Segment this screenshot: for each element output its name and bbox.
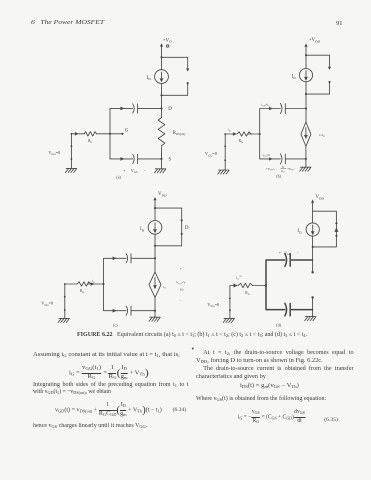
svg-text:RG: RG: [80, 289, 84, 294]
svg-text:(b): (b): [276, 173, 281, 178]
svg-text:+VD: +VD: [163, 38, 172, 43]
svg-text:iGD≈iG: iGD≈iG: [261, 103, 270, 108]
svg-text:G: G: [125, 129, 129, 134]
svg-text:id: id: [163, 285, 166, 290]
svg-text:VGS: VGS: [131, 168, 138, 174]
svg-text:+VTh−: +VTh−: [287, 167, 296, 172]
svg-text:RG: RG: [239, 139, 243, 144]
svg-text:ID: ID: [147, 76, 152, 81]
svg-text:RDS(on): RDS(on): [173, 131, 186, 136]
svg-text:i=iD: i=iD: [319, 133, 325, 138]
svg-text:VGG=0: VGG=0: [205, 151, 217, 157]
svg-text:RG: RG: [245, 291, 249, 296]
svg-text:+: +: [180, 267, 182, 271]
svg-text:iG: iG: [92, 278, 95, 283]
svg-text:ID: ID: [292, 75, 297, 80]
svg-text:VGG=0: VGG=0: [48, 150, 60, 156]
svg-text:VDD: VDD: [158, 192, 167, 197]
svg-text:(d): (d): [276, 323, 281, 328]
svg-text:+: +: [279, 251, 281, 255]
svg-text:+VDD: +VDD: [309, 38, 321, 43]
svg-text:RG: RG: [88, 139, 92, 144]
svg-text:VGG=0: VGG=0: [207, 302, 219, 308]
svg-text:−: −: [297, 251, 299, 255]
svg-text:(t): (t): [180, 287, 183, 291]
svg-text:gm: gm: [281, 169, 284, 174]
svg-text:ID: ID: [297, 229, 302, 234]
svg-text:−: −: [144, 168, 146, 172]
svg-text:ID: ID: [140, 227, 145, 232]
svg-text:iG≈0: iG≈0: [236, 275, 242, 280]
svg-text:−: −: [180, 299, 182, 303]
svg-text:VGG=0: VGG=0: [41, 301, 53, 307]
svg-text:(c): (c): [113, 323, 118, 328]
svg-text:S: S: [169, 157, 172, 162]
svg-text:+VGS=: +VGS=: [266, 167, 275, 172]
svg-text:VDD: VDD: [315, 195, 324, 200]
svg-text:iG: iG: [228, 127, 231, 132]
svg-text:D: D: [168, 107, 172, 112]
svg-text:+: +: [123, 169, 125, 173]
svg-text:(a): (a): [116, 174, 121, 179]
svg-text:VGS=V: VGS=V: [176, 280, 186, 285]
svg-text:iGS≈0: iGS≈0: [263, 153, 271, 158]
svg-text:D: D: [185, 226, 189, 231]
